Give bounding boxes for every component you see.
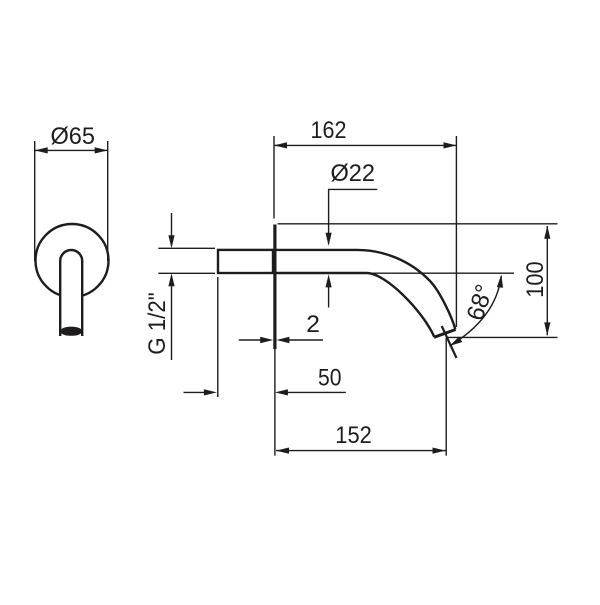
angle 68 arc arrow bottom [450, 337, 463, 346]
dimension 152 extension line right [445, 338, 447, 456]
dimension G1/2 arrow down [168, 235, 174, 248]
dimension 162 arrow right [444, 142, 457, 148]
spout outlet edge (side view) [434, 330, 456, 338]
dimension 100 arrow down [544, 322, 550, 335]
dimension G1/2 upper shaft [171, 213, 173, 237]
dimension G1/2 extension line bottom [158, 272, 215, 274]
extension line thread left end [217, 277, 219, 397]
dimension G1/2 lower shaft [171, 285, 173, 360]
dimension 152 line [276, 450, 446, 452]
dimension 50 arrow left [204, 389, 217, 395]
dimension Ø65 extension line right [107, 141, 109, 261]
dimension Ø22 arrow down [326, 233, 332, 246]
dimension 50 line left [184, 391, 207, 393]
dimension 100 line [546, 226, 548, 335]
dimension 2 arrow left [260, 337, 273, 343]
flange circle (front view, Ø65) [36, 224, 109, 297]
dimension 162 line [274, 144, 457, 146]
dimension 2 line left [239, 339, 262, 341]
wall extension line below [274, 349, 276, 456]
spout tube (front view) [60, 250, 82, 336]
svg-text:100: 100 [522, 261, 549, 298]
reference line top (100 dim) [278, 223, 558, 225]
svg-text:G 1/2": G 1/2" [144, 292, 171, 355]
dimension 162 arrow left [274, 142, 287, 148]
dimension 2 arrow right [276, 337, 289, 343]
svg-text:Ø22: Ø22 [331, 160, 376, 187]
svg-text:Ø65: Ø65 [51, 123, 96, 150]
spout outlet opening (front view, filled) [60, 327, 82, 336]
svg-text:152: 152 [335, 422, 372, 449]
wall plate (side view, 2mm) [273, 225, 276, 350]
dimension 50 arrow right [275, 389, 288, 395]
dimension 100 arrow up [544, 226, 550, 239]
angle 68 arc [450, 276, 502, 346]
dimension Ø22 arrow up (below tube) [326, 274, 332, 287]
dimension Ø65 extension line left [34, 141, 36, 261]
spout outline bottom (side view) [276, 273, 434, 337]
angle 68 horizontal leg [330, 272, 514, 274]
threaded inlet G1/2 (side view rectangle) [218, 250, 273, 273]
dimension Ø65 line [35, 149, 108, 151]
dimension G1/2 extension line top [158, 247, 215, 249]
svg-text:162: 162 [311, 117, 347, 144]
reference line bottom (100 dim) [447, 336, 558, 338]
svg-text:68°: 68° [462, 281, 499, 324]
dimension G1/2 arrow up [168, 273, 174, 286]
dimension 50 line right [286, 391, 346, 393]
dimension Ø65 arrow left [35, 147, 48, 153]
dimension 2 line right [287, 339, 323, 341]
angle 68 outlet leg line [442, 326, 457, 358]
dimension 162 extension line left (above wall) [273, 136, 275, 219]
dimension Ø22 lower shaft [328, 285, 330, 308]
svg-text:2: 2 [306, 311, 320, 338]
svg-text:50: 50 [318, 364, 342, 391]
spout outline top (side view) [276, 250, 455, 329]
dimension 152 arrow left [276, 448, 289, 454]
dimension Ø65 arrow right [95, 147, 108, 153]
dimension 152 arrow right [433, 448, 446, 454]
angle 68 arc arrow top [497, 275, 503, 288]
dimension 162 extension line right [455, 136, 457, 327]
dimension Ø22 leader line [329, 189, 378, 244]
